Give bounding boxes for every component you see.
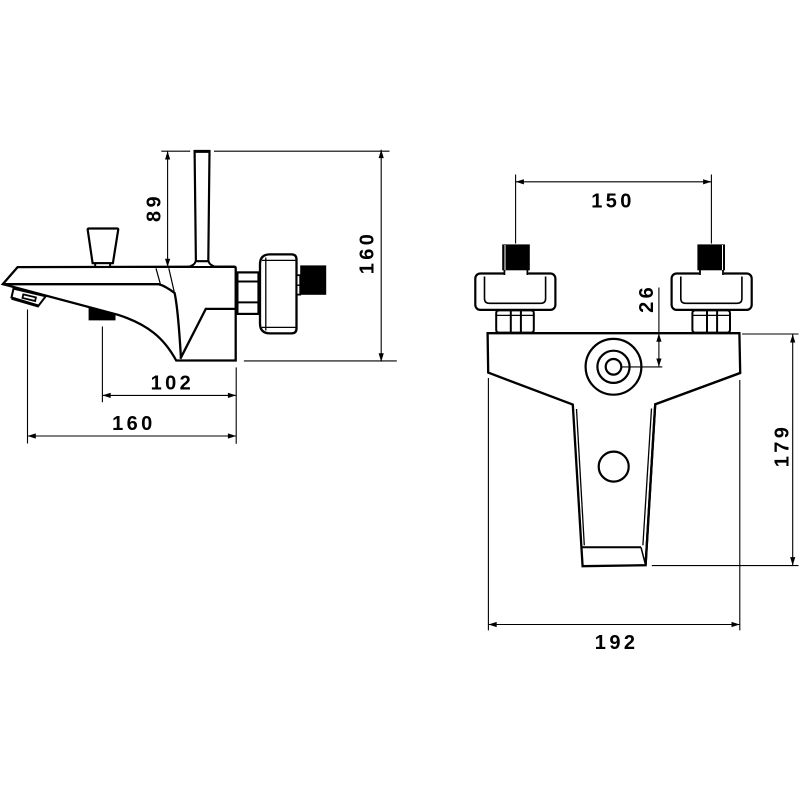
left bolt black cap [502,244,530,270]
179 ext line top [742,333,799,335]
dim 160v arrow top [379,150,384,158]
threaded connector (black) [300,265,326,294]
dimension 160 bottom line [28,435,237,437]
leader line from circle center [622,366,663,368]
svg-text:192: 192 [595,632,639,654]
dim 26 arrow up [656,333,661,341]
right nut top band [692,314,730,316]
dim 89 arrow top [165,151,170,159]
facet thin line 1 [156,268,160,284]
ext line at lever top (left segment) [161,150,190,152]
dimension 26 line [658,288,660,367]
spout body outline [3,267,236,361]
ext line aerator [101,327,103,403]
ext line body bottom right [244,360,397,362]
shower outlet circles [586,339,642,395]
right escutcheon inner line [681,277,742,304]
right escutcheon [672,274,752,310]
left escutcheon inner line [485,277,546,304]
left nut top band [496,314,534,316]
diverter knob [88,229,119,264]
ext line spout outlet [27,310,29,444]
thread collar [297,275,301,294]
svg-text:150: 150 [591,191,635,213]
left bolt neck [504,269,529,276]
body V facet diagonal [180,309,235,359]
right bolt black cap [697,244,725,270]
round cartridge knob (side view) [260,254,297,333]
dim 102 arrow left [102,393,110,398]
knob inner chamfer top [262,259,296,261]
svg-text:26: 26 [636,284,658,313]
spout outlet inner rect [23,294,36,301]
dim 102 arrow right [228,393,236,398]
svg-text:179: 179 [771,424,793,468]
dimension 192 line [488,624,739,626]
spout outlet lip [12,298,39,306]
foot top edge [582,546,641,548]
right nut facet line 1 [706,310,708,332]
stem inner line right [643,409,652,546]
diverter knob foot [95,263,110,267]
ext line at lever top (right segment) [214,150,390,152]
dim 89 arrow bottom [165,259,170,267]
right nut facet line 2 [716,310,718,332]
right hex nut (front) [692,310,730,332]
dim 26 arrow down [656,359,661,367]
spout front top crease [3,284,181,357]
dim 160 arrow left [28,433,36,438]
spout outlet box [12,289,46,306]
dimension 102 line [102,394,236,396]
dim 192 arrow left [488,622,496,627]
left hex nut (front) [496,310,534,332]
dim 179 arrow top [790,334,795,342]
lever handle top edge [194,150,211,153]
right bolt neck [699,269,724,276]
dimension 89 line [167,151,169,267]
150 dim ext line right [710,175,712,244]
dim 150 arrow right [703,179,711,184]
hex nut (side view) [237,272,258,314]
dimension 179 line [792,334,794,565]
svg-text:160: 160 [112,413,156,435]
lever handle bar [195,151,210,261]
knob inner chamfer bottom [262,326,296,328]
150 dim ext line left [515,175,517,244]
aerator black quad [89,307,116,320]
192 ext line left [487,378,489,630]
left nut facet line 2 [520,310,522,332]
left nut facet line 1 [510,310,512,332]
179 ext line bottom [652,565,799,567]
body silhouette corrected [646,373,741,565]
dimension 150 line [516,181,712,183]
left cap knurl line [504,245,506,270]
facet thin line 2 [169,268,175,292]
wall bracket body outline [488,333,741,566]
svg-text:160: 160 [357,231,379,275]
svg-text:89: 89 [144,193,166,222]
lower screw hole [599,452,629,482]
lever base flare [188,261,217,267]
dim 150 arrow left [516,179,524,184]
dim 192 arrow right [732,622,740,627]
ext line body right [235,367,237,443]
hex nut facet line bottom [237,301,258,303]
stem inner line left [577,409,585,545]
svg-text:102: 102 [151,372,195,394]
dim 160v arrow bottom [379,353,384,361]
collar notch [297,284,301,286]
left escutcheon [475,274,555,310]
knob inner chamfer vertical [265,258,267,331]
dimension 160 vertical line [380,150,382,362]
foot corner diagonal [641,547,646,565]
hex nut facet line top [237,281,258,283]
dim 179 arrow bottom [790,557,795,565]
dim 160 arrow right [228,433,236,438]
192 ext line right [739,380,741,630]
right cap knurl line [722,245,724,270]
